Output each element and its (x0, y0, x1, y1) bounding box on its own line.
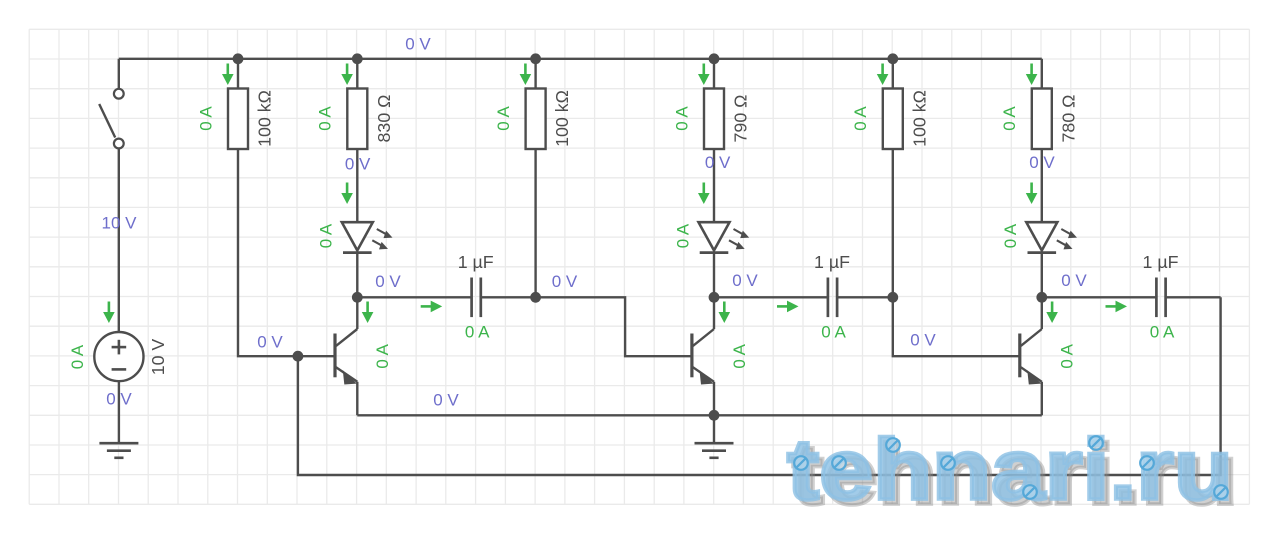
label: C1 value 1 µF (458, 252, 494, 272)
label: LED2 current 0 A (673, 223, 692, 248)
svg-text:0 V: 0 V (433, 391, 459, 410)
label: 0 V Q1 base node (257, 333, 283, 352)
label: R4 current 0 A (672, 106, 691, 131)
wire: feedback C3 to Q1 base (298, 297, 1221, 475)
label: 0 V node above LED1 (345, 155, 371, 174)
svg-text:0 A: 0 A (730, 343, 749, 368)
current arrow R2 (341, 64, 353, 86)
transistor Q2 (692, 299, 714, 415)
svg-text:1 µF: 1 µF (814, 252, 850, 272)
label: V1 value 10 V (148, 339, 168, 376)
label: R3 current 0 A (494, 106, 513, 131)
label: R1 current 0 A (196, 106, 215, 131)
current arrow R6 (1026, 64, 1038, 86)
current arrow LED3 (1026, 183, 1038, 205)
junction: row node (709, 292, 720, 303)
wire: LED2 to collector node (713, 252, 715, 297)
wire: Q1 collector node to C1 (357, 296, 471, 298)
capacitor C1 1 µF (472, 278, 481, 318)
wire: right rail drop to R6 (1041, 59, 1043, 89)
watermark tehnari.ru (787, 422, 1238, 523)
current arrow R4 (698, 64, 710, 86)
wire: Q3 collector node to C3 (1042, 296, 1157, 298)
wire: rail to R1 (237, 59, 239, 89)
label: V1 current 0 A (68, 344, 87, 369)
transistor Q1 (335, 299, 357, 415)
wire: Q2 collector node to C2 (714, 296, 828, 298)
label: R1 value (255, 90, 275, 147)
switch SW1 (99, 89, 124, 149)
current arrow R5 (877, 64, 889, 86)
wire: rail to R5 (892, 59, 894, 89)
LED LED1 (342, 222, 393, 252)
svg-text:0 A: 0 A (1058, 343, 1077, 368)
junction: top rail node 1 (233, 53, 244, 64)
wire: top supply rail (119, 58, 1042, 60)
wire: rail to R3 (534, 59, 536, 89)
svg-text:0 A: 0 A (1000, 106, 1019, 131)
svg-text:780 Ω: 780 Ω (1058, 95, 1078, 143)
label: 0 V battery minus (106, 390, 132, 409)
svg-text:100 kΩ: 100 kΩ (909, 90, 929, 147)
junction: Q1 base node (293, 351, 304, 362)
label: 0 V Q3 collector node (1061, 271, 1087, 290)
svg-text:1 µF: 1 µF (1143, 252, 1179, 272)
wire: switch to top rail (118, 59, 120, 89)
label: R5 current 0 A (851, 106, 870, 131)
label: C1 current 0 A (465, 322, 490, 341)
label: 0 V emitter bus (433, 391, 459, 410)
svg-text:0 A: 0 A (68, 344, 87, 369)
svg-text:0 V: 0 V (345, 155, 371, 174)
label: R6 current 0 A (1000, 106, 1019, 131)
label: R6 value (1058, 95, 1078, 143)
LED LED2 (699, 222, 750, 252)
voltage source V1 (94, 332, 143, 381)
wire: LED3 to collector node (1041, 252, 1043, 297)
svg-text:0 V: 0 V (732, 271, 758, 290)
label: 0 V C2 right node (910, 331, 936, 350)
svg-text:0 V: 0 V (910, 331, 936, 350)
wire: Q1 base node to Q1 (298, 355, 335, 357)
wire: V1 to ground (118, 381, 120, 443)
svg-text:100 kΩ: 100 kΩ (552, 90, 572, 147)
current arrow C1 (421, 301, 443, 313)
current arrow into V1 (103, 302, 115, 324)
svg-text:0 A: 0 A (821, 322, 846, 341)
current arrow Q1 collector (362, 302, 374, 324)
wire: emitter bus (357, 414, 1042, 416)
svg-text:0 V: 0 V (106, 390, 132, 409)
svg-text:0 V: 0 V (405, 35, 431, 54)
label: R2 current 0 A (316, 106, 335, 131)
svg-text:0 A: 0 A (316, 106, 335, 131)
wire: LED1 to collector node (356, 252, 358, 297)
svg-text:0 V: 0 V (1061, 271, 1087, 290)
current arrow R3 (520, 64, 532, 86)
current arrow C3 (1106, 301, 1128, 313)
svg-text:0 A: 0 A (196, 106, 215, 131)
wire: C2 node down-jog to Q3 base (893, 297, 1020, 356)
label: Q1 collector current 0 A (373, 343, 392, 368)
resistor R5 100 kΩ (883, 89, 903, 150)
label: 0 V C1 right node (552, 272, 578, 291)
label: 0 V node above LED2 (705, 153, 731, 172)
svg-text:0 V: 0 V (375, 272, 401, 291)
capacitor C2 1 µF (828, 278, 837, 318)
current arrow Q3 collector (1046, 302, 1058, 324)
current arrow LED1 (341, 183, 353, 205)
svg-text:0 A: 0 A (373, 343, 392, 368)
wire: rail to R2 (356, 59, 358, 89)
svg-text:830 Ω: 830 Ω (374, 95, 394, 143)
ground G1 (99, 443, 138, 458)
label: R2 value (374, 95, 394, 143)
label: C3 current 0 A (1150, 322, 1175, 341)
current arrow R1 (222, 64, 234, 86)
svg-text:0 V: 0 V (705, 153, 731, 172)
label: 0 V Q1 collector node (375, 272, 401, 291)
label: Q2 collector current 0 A (730, 343, 749, 368)
junction: row node (530, 292, 541, 303)
wire: R5 down to C2 node (892, 149, 894, 297)
wire: switch to battery (118, 148, 120, 332)
resistor R6 780 Ω (1032, 89, 1052, 150)
wire: R2 to LED1 (356, 149, 358, 222)
capacitor C3 1 µF (1156, 278, 1165, 318)
label: LED3 current 0 A (1001, 223, 1020, 248)
resistor R2 830 Ω (347, 89, 367, 150)
wire: C2 to node (837, 296, 893, 298)
junction: top rail node 3 (530, 53, 541, 64)
label: 10 V switch node (102, 214, 138, 233)
svg-text:0 V: 0 V (552, 272, 578, 291)
current arrow LED2 (698, 183, 710, 205)
label: C2 value 1 µF (814, 252, 850, 272)
LED LED3 (1026, 222, 1077, 252)
svg-text:1 µF: 1 µF (458, 252, 494, 272)
junction: top rail node 2 (352, 53, 363, 64)
wire: R4 to LED2 (713, 149, 715, 222)
svg-text:tehnari.ru: tehnari.ru (787, 422, 1233, 518)
svg-text:0 A: 0 A (1150, 322, 1175, 341)
svg-text:0 A: 0 A (317, 223, 336, 248)
resistor R3 100 kΩ (526, 89, 546, 150)
label: Q3 collector current 0 A (1058, 343, 1077, 368)
junction: emitter bus ground node (709, 410, 720, 421)
junction: row node (352, 292, 363, 303)
label: 0 V Q2 collector node (732, 271, 758, 290)
wire: emitter bus to ground (713, 415, 715, 443)
svg-text:0 A: 0 A (465, 322, 490, 341)
svg-text:0 A: 0 A (672, 106, 691, 131)
wire: R1 to Q1 base node (238, 149, 298, 356)
svg-text:0 V: 0 V (257, 333, 283, 352)
current arrow Q2 collector (719, 302, 731, 324)
wire: R6 to LED3 (1041, 149, 1043, 222)
svg-text:790 Ω: 790 Ω (731, 95, 751, 143)
wire: C1 node jog to Q2 base (536, 297, 692, 356)
svg-text:0 A: 0 A (851, 106, 870, 131)
svg-text:100 kΩ: 100 kΩ (255, 90, 275, 147)
junction: top rail node 4 (709, 53, 720, 64)
svg-text:0 A: 0 A (673, 223, 692, 248)
junction: row node (1036, 292, 1047, 303)
svg-text:10 V: 10 V (148, 339, 168, 376)
wire: R3 down to C1 node (534, 149, 536, 297)
svg-text:0 V: 0 V (1029, 153, 1055, 172)
label: 0 V top rail (405, 35, 431, 54)
label: C3 value 1 µF (1143, 252, 1179, 272)
label: 0 V node above LED3 (1029, 153, 1055, 172)
wire: C3 to right corner (1166, 296, 1221, 298)
label: R3 value (552, 90, 572, 147)
current arrow C2 (777, 301, 799, 313)
resistor R4 790 Ω (704, 89, 724, 150)
label: R4 value (731, 95, 751, 143)
label: R5 value (909, 90, 929, 147)
junction: top rail node 5 (887, 53, 898, 64)
resistor R1 100 kΩ (228, 89, 248, 150)
svg-text:10 V: 10 V (102, 214, 138, 233)
svg-text:0 A: 0 A (494, 106, 513, 131)
junction: row node (887, 292, 898, 303)
label: C2 current 0 A (821, 322, 846, 341)
wire: rail to R4 (713, 59, 715, 89)
svg-text:0 A: 0 A (1001, 223, 1020, 248)
wire: C1 to node (481, 296, 536, 298)
ground G2 (695, 443, 734, 458)
transistor Q3 (1020, 299, 1042, 415)
label: LED1 current 0 A (317, 223, 336, 248)
